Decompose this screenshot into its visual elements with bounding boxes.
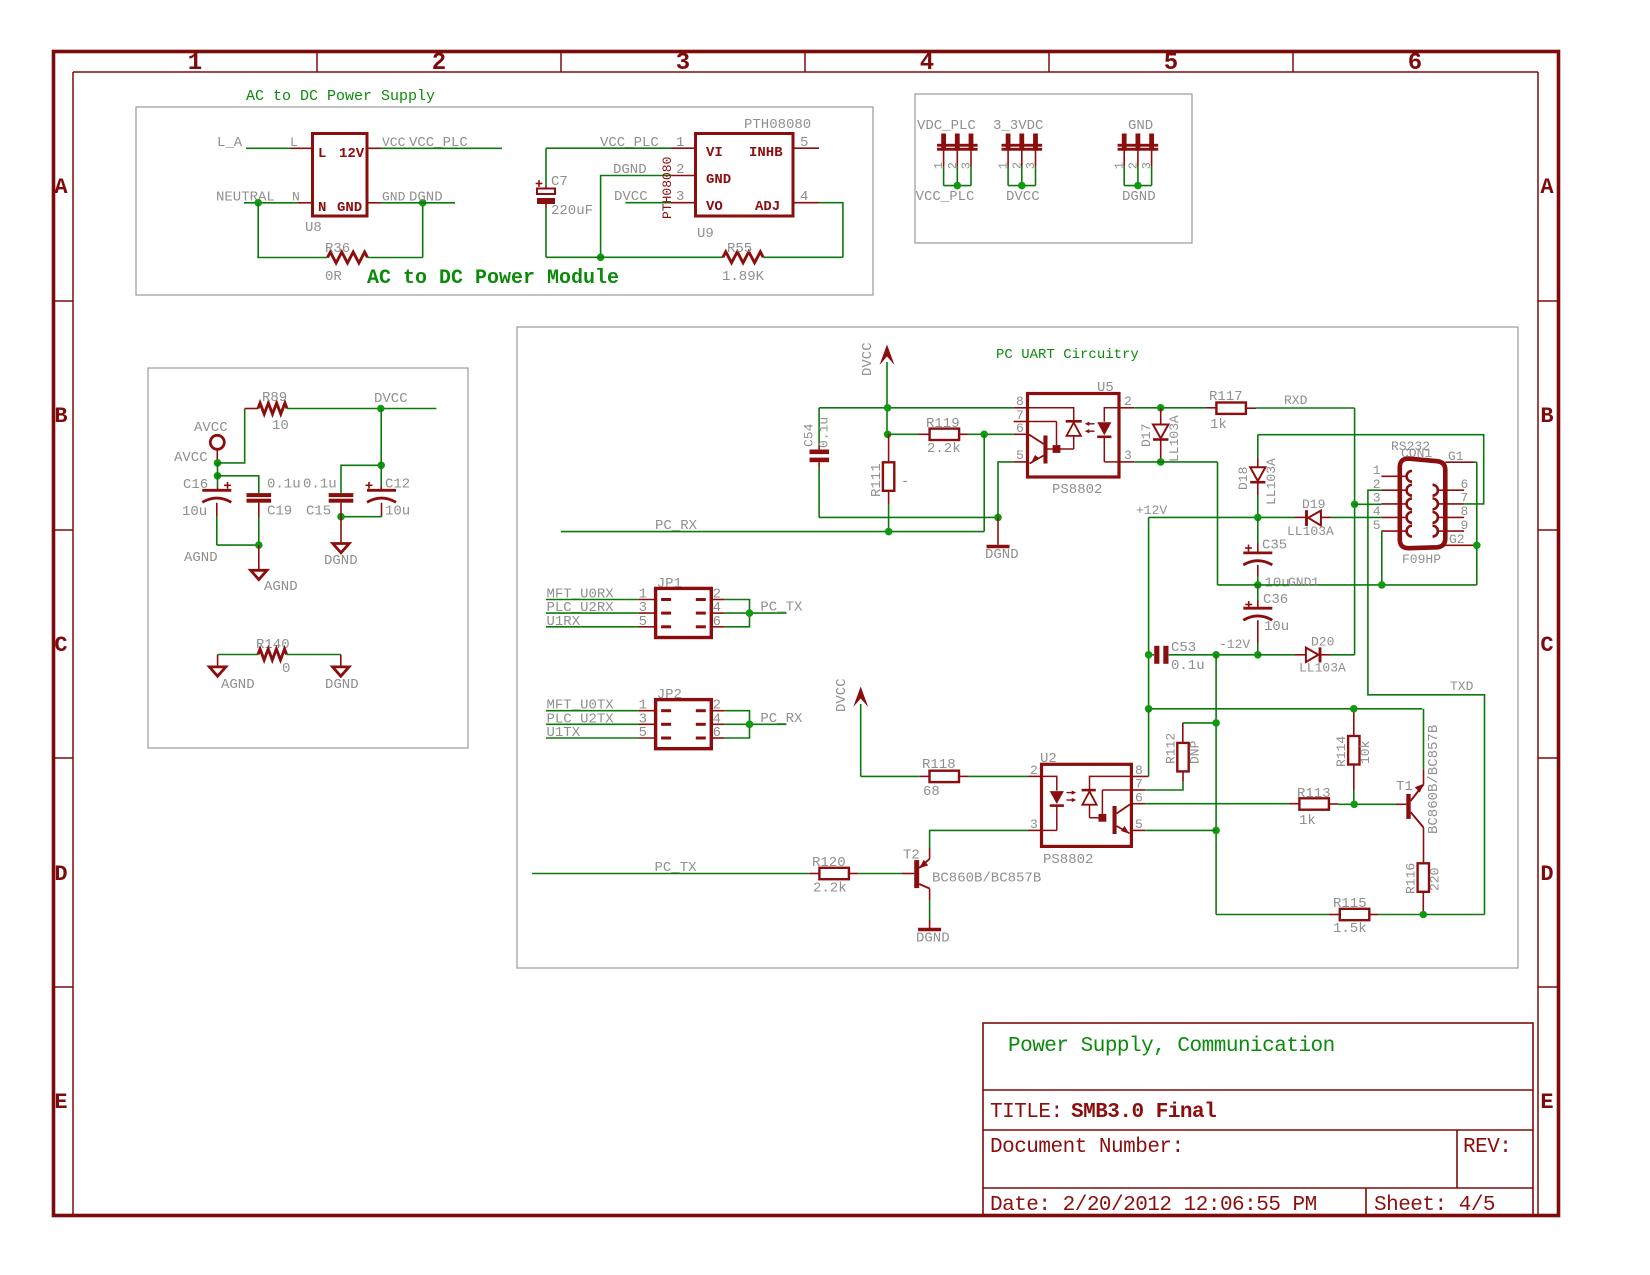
svg-text:LL103A: LL103A bbox=[1167, 415, 1182, 462]
svg-text:1k: 1k bbox=[1299, 813, 1316, 829]
label R120 bbox=[812, 855, 846, 871]
svg-text:Date: 2/20/2012 12:06:55 PM: Date: 2/20/2012 12:06:55 PM bbox=[990, 1194, 1317, 1217]
svg-text:D19: D19 bbox=[1302, 497, 1325, 512]
capacitor C7 bbox=[536, 180, 555, 204]
resistor R119 bbox=[930, 429, 960, 440]
wire -12V rail bbox=[1149, 654, 1258, 656]
row label A right bbox=[1540, 175, 1554, 200]
label U8 bbox=[305, 220, 322, 236]
value 10u C35 bbox=[1265, 576, 1290, 592]
label R111 vertical bbox=[869, 463, 885, 497]
pin lead U5.6 bbox=[1014, 433, 1028, 435]
resistor R111 bbox=[883, 434, 894, 531]
wire U5 pin2 to R117 bbox=[1134, 407, 1216, 409]
label C53 bbox=[1171, 640, 1196, 656]
svg-text:D20: D20 bbox=[1311, 635, 1334, 650]
svg-text:VCC: VCC bbox=[382, 135, 406, 150]
pin number U2.7 bbox=[1135, 777, 1143, 792]
svg-text:0.1u: 0.1u bbox=[1171, 658, 1205, 674]
value BC860B/BC857B T1 vertical bbox=[1426, 725, 1442, 834]
svg-text:A: A bbox=[1540, 175, 1554, 200]
svg-text:B: B bbox=[54, 404, 67, 429]
svg-text:D17: D17 bbox=[1139, 424, 1154, 447]
svg-text:R55: R55 bbox=[727, 241, 752, 257]
node -12V D20 junction bbox=[1254, 651, 1262, 659]
svg-text:2: 2 bbox=[1124, 394, 1132, 409]
svg-text:5: 5 bbox=[1135, 817, 1143, 832]
svg-text:5: 5 bbox=[1164, 50, 1178, 77]
svg-text:AVCC: AVCC bbox=[174, 450, 208, 466]
label T2 bbox=[903, 848, 920, 864]
svg-text:C54: C54 bbox=[802, 423, 817, 447]
svg-text:DVCC: DVCC bbox=[834, 678, 850, 712]
svg-text:R114: R114 bbox=[1334, 736, 1349, 767]
svg-text:AGND: AGND bbox=[221, 677, 255, 693]
net label NEUTRAL bbox=[216, 190, 275, 206]
label CON1 bbox=[1401, 446, 1432, 461]
svg-text:1: 1 bbox=[1373, 463, 1381, 478]
optocoupler U5 bbox=[1028, 394, 1120, 478]
wire R36 to DGND node bbox=[368, 203, 423, 258]
svg-text:1: 1 bbox=[932, 162, 946, 169]
capacitor C19 bbox=[247, 493, 272, 503]
wire T2 collector to U2 pin3 bbox=[930, 830, 1028, 858]
svg-text:6: 6 bbox=[1135, 790, 1143, 805]
value 0.1u C15 bbox=[303, 477, 337, 493]
pin number 2 bbox=[676, 162, 684, 178]
svg-text:DVCC: DVCC bbox=[860, 342, 876, 376]
svg-text:PC_TX: PC_TX bbox=[760, 600, 803, 616]
wire to DB9 pin3 bbox=[1355, 503, 1382, 505]
svg-text:E: E bbox=[54, 1090, 67, 1115]
svg-text:D: D bbox=[54, 862, 67, 887]
wire U5 pin5 to DGND bbox=[998, 462, 1014, 545]
wire R118 to U2 pin2 bbox=[959, 775, 1028, 777]
svg-text:L: L bbox=[290, 135, 298, 150]
svg-text:DGND: DGND bbox=[985, 547, 1019, 563]
svg-text:3_3VDC: 3_3VDC bbox=[993, 118, 1043, 134]
svg-text:10u: 10u bbox=[1264, 619, 1289, 635]
svg-text:PS8802: PS8802 bbox=[1052, 482, 1102, 498]
CON1 pin 8 lead bbox=[1433, 512, 1465, 523]
wire DVCC to C12 bbox=[380, 409, 382, 491]
net label PC_RX bbox=[655, 518, 698, 534]
wire U9 ADJ to R55 bbox=[793, 203, 843, 258]
pin name VCC bbox=[382, 135, 406, 150]
svg-text:10k: 10k bbox=[1358, 740, 1373, 764]
svg-text:C36: C36 bbox=[1263, 592, 1288, 608]
label C15 bbox=[306, 504, 331, 520]
pin number CON1.2 bbox=[1373, 477, 1381, 492]
resistor R89 bbox=[258, 403, 287, 414]
wire R55 to ADJ bbox=[763, 256, 843, 258]
svg-text:R118: R118 bbox=[922, 757, 956, 773]
svg-text:2: 2 bbox=[676, 162, 684, 178]
node C7 bottom junction bbox=[597, 253, 605, 261]
node AVCC junction 2 bbox=[214, 472, 222, 480]
svg-text:C7: C7 bbox=[551, 174, 568, 190]
svg-text:N: N bbox=[318, 200, 326, 216]
title block Document Number bbox=[990, 1136, 1184, 1159]
svg-text:R113: R113 bbox=[1297, 786, 1331, 802]
pin name L bbox=[290, 135, 298, 150]
node pin5 GND1 junction bbox=[1378, 581, 1386, 589]
svg-text:3: 3 bbox=[960, 162, 974, 169]
label PTH08080 top bbox=[744, 117, 811, 133]
jumper JP1 bbox=[546, 587, 803, 638]
svg-text:C: C bbox=[54, 633, 67, 658]
node pin6 junction bbox=[980, 431, 988, 439]
diode D19 bbox=[1307, 510, 1382, 526]
value 1.5k bbox=[1333, 921, 1367, 937]
AC to DC Power Supply section box bbox=[136, 107, 873, 295]
svg-text:R117: R117 bbox=[1209, 389, 1243, 405]
label R140 bbox=[256, 637, 290, 653]
label AGND bbox=[264, 579, 298, 595]
node T1 base junction bbox=[1350, 801, 1358, 809]
node R111 PC_RX junction bbox=[885, 528, 893, 536]
svg-text:A: A bbox=[54, 175, 68, 200]
value 10k vertical bbox=[1358, 740, 1373, 764]
svg-text:DVCC: DVCC bbox=[1006, 189, 1040, 205]
value LL103A D19 bbox=[1287, 524, 1334, 539]
node U2 pin5 junction bbox=[1212, 827, 1220, 835]
label DGND bbox=[324, 553, 358, 569]
capacitor C53 bbox=[1154, 646, 1168, 664]
pin G1 lead bbox=[1445, 461, 1473, 463]
svg-text:220uF: 220uF bbox=[551, 203, 593, 219]
capacitor C35 bbox=[1243, 517, 1272, 585]
row label C right bbox=[1540, 633, 1553, 658]
node R112 junction bbox=[1212, 719, 1220, 727]
value 220uF bbox=[551, 203, 593, 219]
svg-text:G1: G1 bbox=[1448, 449, 1464, 464]
label DGND T2 bbox=[916, 931, 950, 947]
svg-text:2: 2 bbox=[1010, 162, 1024, 169]
wire C54 bottom rail bbox=[819, 516, 998, 518]
svg-text:GND1: GND1 bbox=[1288, 575, 1319, 590]
title block frame bbox=[983, 1023, 1533, 1216]
svg-text:68: 68 bbox=[923, 784, 940, 800]
value 0.1u C53 bbox=[1171, 658, 1205, 674]
wire DGND to U9 pin 2 bbox=[601, 176, 696, 258]
wire C12 bottom bbox=[341, 503, 382, 517]
regulator U9 PTH08080 bbox=[696, 134, 794, 217]
row label A left bbox=[54, 175, 68, 200]
wire R117 to RXD bbox=[1246, 407, 1354, 409]
ground AGND 2 bbox=[209, 667, 225, 676]
value LL103A D18 vertical bbox=[1264, 458, 1279, 505]
resistor R117 bbox=[1216, 403, 1246, 414]
value LL103A D17 vertical bbox=[1167, 415, 1182, 462]
svg-text:Sheet: 4/5: Sheet: 4/5 bbox=[1374, 1194, 1495, 1217]
pin number U5.3 bbox=[1124, 448, 1132, 463]
pin number U2.5 bbox=[1135, 817, 1143, 832]
transistor T2 bbox=[914, 859, 929, 889]
svg-text:R112: R112 bbox=[1164, 733, 1179, 764]
pin number CON1.9 bbox=[1461, 518, 1469, 533]
connector CON1 DB9 shell bbox=[1400, 459, 1446, 549]
CON1 pin 5 lead bbox=[1381, 526, 1412, 537]
resistor R116 bbox=[1418, 863, 1429, 914]
pin number 5 bbox=[800, 135, 808, 151]
label C16 bbox=[183, 477, 208, 493]
value 0 bbox=[282, 661, 290, 677]
svg-text:2: 2 bbox=[946, 162, 960, 169]
wire PC_TX bbox=[532, 873, 819, 875]
svg-text:N: N bbox=[292, 190, 300, 205]
analog supply section box bbox=[148, 368, 468, 748]
svg-text:DGND: DGND bbox=[409, 190, 443, 206]
wire U2 pin6 to R113 bbox=[1145, 803, 1299, 805]
connector 3_3VDC header bbox=[993, 118, 1043, 205]
label DGND U5 bbox=[985, 547, 1019, 563]
svg-text:3: 3 bbox=[1140, 162, 1154, 169]
wire +12V down bbox=[1148, 517, 1150, 708]
capacitor C54 bbox=[810, 408, 830, 518]
CON1 pin 2 lead bbox=[1381, 485, 1412, 496]
wire -12V down bbox=[1215, 655, 1217, 915]
pin name GND bbox=[382, 190, 406, 205]
PC UART Circuitry title bbox=[996, 347, 1139, 363]
value 0.1u C54 vertical bbox=[817, 417, 832, 448]
svg-text:AGND: AGND bbox=[184, 550, 218, 566]
svg-text:RXD: RXD bbox=[1284, 393, 1308, 408]
resistor R112 bbox=[1145, 723, 1216, 790]
svg-text:2: 2 bbox=[432, 50, 446, 77]
resistor R114 bbox=[1348, 709, 1359, 805]
svg-text:PC_RX: PC_RX bbox=[760, 711, 803, 727]
svg-text:3: 3 bbox=[676, 189, 684, 205]
label R115 bbox=[1333, 896, 1367, 912]
svg-text:3: 3 bbox=[1124, 448, 1132, 463]
wire NEUTRAL to U8 pin N bbox=[244, 202, 313, 204]
wire AVCC to C16 bbox=[217, 476, 219, 491]
label F09HP bbox=[1402, 552, 1441, 567]
wire bottom rail to R55 bbox=[546, 256, 723, 258]
svg-text:1k: 1k bbox=[1210, 417, 1227, 433]
svg-text:12V: 12V bbox=[339, 146, 365, 162]
svg-text:DGND: DGND bbox=[324, 553, 358, 569]
wire R119 to U5 pin6 bbox=[959, 433, 1014, 435]
capacitor C15 bbox=[329, 493, 354, 503]
diode D20 bbox=[1258, 647, 1355, 662]
resistor R120 bbox=[819, 868, 849, 879]
svg-text:1: 1 bbox=[997, 162, 1011, 169]
column label 3 bbox=[676, 50, 690, 77]
label RS232 bbox=[1391, 439, 1430, 454]
value R111 dash bbox=[901, 474, 909, 490]
label R55 bbox=[727, 241, 752, 257]
pin lead U2.2 bbox=[1028, 775, 1042, 777]
svg-text:C15: C15 bbox=[306, 504, 331, 520]
svg-text:5: 5 bbox=[800, 135, 808, 151]
svg-text:-12V: -12V bbox=[1219, 637, 1250, 652]
pin number U2.2 bbox=[1030, 763, 1038, 778]
pin lead U5.8 bbox=[1014, 407, 1028, 409]
net label RXD bbox=[1284, 393, 1308, 408]
pin lead U5.2 bbox=[1119, 407, 1134, 409]
node C53 junction bbox=[1145, 651, 1153, 659]
svg-text:PC UART Circuitry: PC UART Circuitry bbox=[996, 347, 1139, 363]
title block Date bbox=[990, 1194, 1317, 1217]
node C15 bottom junction bbox=[337, 513, 345, 521]
wire R120 to T2 bbox=[849, 873, 914, 875]
ground DGND U5 bbox=[987, 545, 1010, 548]
svg-text:BC860B/BC857B: BC860B/BC857B bbox=[932, 871, 1041, 887]
svg-text:REV:: REV: bbox=[1463, 1136, 1511, 1159]
title block SMB3.0 Final bbox=[1071, 1101, 1216, 1124]
wire T1 collector up bbox=[1423, 709, 1425, 785]
svg-text:PS8802: PS8802 bbox=[1043, 852, 1093, 868]
wire R119 row bbox=[888, 433, 930, 435]
net label PC_TX bbox=[655, 860, 698, 876]
svg-text:0.1u: 0.1u bbox=[303, 477, 337, 493]
value 68 bbox=[923, 784, 940, 800]
diode D17 bbox=[1153, 408, 1168, 462]
wire to DGND symbol bbox=[340, 517, 342, 544]
value DNP vertical bbox=[1188, 740, 1203, 764]
row label B left bbox=[54, 404, 67, 429]
wire PC_RX bbox=[561, 531, 984, 533]
svg-text:LL103A: LL103A bbox=[1287, 524, 1334, 539]
pin lead U2.3 bbox=[1028, 829, 1042, 831]
wire C16 bottom bbox=[217, 503, 259, 545]
svg-text:AC to DC Power Module: AC to DC Power Module bbox=[367, 267, 619, 290]
pin number U5.2 bbox=[1124, 394, 1132, 409]
value 10u C12 bbox=[385, 504, 410, 520]
svg-text:R116: R116 bbox=[1404, 863, 1419, 894]
svg-text:AC to DC Power Supply: AC to DC Power Supply bbox=[246, 88, 435, 105]
wire GND1 link down bbox=[1217, 462, 1219, 585]
pin number U2.6 bbox=[1135, 790, 1143, 805]
wire AVCC down bbox=[217, 463, 219, 476]
label R112 vertical bbox=[1164, 733, 1179, 764]
svg-text:Document Number:: Document Number: bbox=[990, 1136, 1184, 1159]
svg-text:VCC_PLC: VCC_PLC bbox=[916, 189, 975, 205]
svg-text:1: 1 bbox=[676, 135, 684, 151]
svg-text:C35: C35 bbox=[1262, 538, 1287, 554]
node D17 top junction bbox=[1157, 404, 1165, 412]
transistor T1 bbox=[1406, 784, 1424, 828]
svg-text:LL103A: LL103A bbox=[1264, 458, 1279, 505]
wire DVCC to U9 pin 3 bbox=[626, 202, 696, 204]
svg-text:4: 4 bbox=[920, 50, 934, 77]
value 1k bbox=[1210, 417, 1227, 433]
label R118 bbox=[922, 757, 956, 773]
svg-text:5: 5 bbox=[1373, 518, 1381, 533]
net label GND1 bbox=[1288, 575, 1319, 590]
svg-text:VCC_PLC: VCC_PLC bbox=[409, 135, 468, 151]
svg-text:GND: GND bbox=[382, 190, 406, 205]
wire RXD down bbox=[1354, 408, 1356, 655]
resistor R113 bbox=[1299, 798, 1329, 809]
wire NEUTRAL down to R36 bbox=[258, 203, 327, 258]
node R116 junction bbox=[1420, 911, 1428, 919]
wire +12V rail bbox=[1149, 516, 1307, 518]
node NEUTRAL junction bbox=[254, 199, 262, 207]
svg-text:ADJ: ADJ bbox=[755, 199, 780, 215]
svg-text:TITLE:: TITLE: bbox=[990, 1101, 1063, 1124]
label G2 bbox=[1449, 532, 1465, 547]
row label E right bbox=[1540, 1090, 1553, 1115]
wire AVCC to R89 bbox=[218, 409, 259, 463]
svg-text:GND: GND bbox=[337, 200, 362, 216]
row label C left bbox=[54, 633, 67, 658]
svg-text:0R: 0R bbox=[325, 269, 342, 285]
wire VCC_PLC to U9 pin 1 bbox=[546, 147, 696, 149]
svg-text:2: 2 bbox=[1030, 763, 1038, 778]
label G1 bbox=[1448, 449, 1464, 464]
pin number CON1.7 bbox=[1461, 491, 1469, 506]
jumper JP2 bbox=[546, 698, 803, 749]
svg-text:GND: GND bbox=[1128, 118, 1153, 134]
svg-text:2: 2 bbox=[1126, 162, 1140, 169]
svg-text:Power Supply, Communication: Power Supply, Communication bbox=[1008, 1035, 1335, 1058]
diode D18 bbox=[1250, 435, 1265, 518]
pin number CON1.4 bbox=[1373, 504, 1381, 519]
net label VCC_PLC at U9 bbox=[600, 135, 659, 151]
net label AVCC bbox=[174, 450, 208, 466]
svg-text:T2: T2 bbox=[903, 848, 920, 864]
svg-text:R111: R111 bbox=[869, 463, 885, 497]
svg-text:R120: R120 bbox=[812, 855, 846, 871]
pin number U5.5 bbox=[1016, 448, 1024, 463]
net label DVCC bbox=[374, 391, 408, 407]
AC to DC Power Supply title bbox=[246, 88, 435, 105]
pin lead U2.8 bbox=[1131, 775, 1148, 777]
label R117 bbox=[1209, 389, 1243, 405]
wire pin6 down to PC_RX bbox=[983, 434, 985, 531]
CON1 pin 4 lead bbox=[1381, 512, 1412, 523]
svg-text:+12V: +12V bbox=[1136, 503, 1167, 518]
value 0R bbox=[325, 269, 342, 285]
pin lead U5.5 bbox=[1014, 461, 1028, 463]
value BC860B/BC857B T2 bbox=[932, 871, 1041, 887]
svg-text:3: 3 bbox=[676, 50, 690, 77]
wire pin8 rail bbox=[819, 407, 1014, 409]
AC to DC Power Module title bbox=[367, 267, 619, 290]
svg-text:DGND: DGND bbox=[1122, 189, 1156, 205]
svg-text:B: B bbox=[1540, 404, 1553, 429]
ground AGND bbox=[251, 570, 267, 579]
pin number CON1.6 bbox=[1461, 477, 1469, 492]
resistor R36 bbox=[328, 252, 368, 263]
svg-text:R36: R36 bbox=[325, 241, 350, 257]
pin number U2.8 bbox=[1135, 763, 1143, 778]
pin lead U5.7 bbox=[1014, 421, 1028, 423]
wire DB9 pin5 down bbox=[1380, 531, 1382, 585]
row label B right bbox=[1540, 404, 1553, 429]
svg-text:L: L bbox=[318, 146, 326, 162]
svg-text:1.89K: 1.89K bbox=[722, 269, 765, 285]
node +12V junction bbox=[1254, 514, 1262, 522]
node R114 top junction bbox=[1350, 705, 1358, 713]
label U5 bbox=[1097, 380, 1114, 396]
svg-text:U5: U5 bbox=[1097, 380, 1114, 396]
net label TXD bbox=[1450, 679, 1474, 694]
pin lead U2.6 bbox=[1131, 803, 1145, 805]
svg-text:10: 10 bbox=[272, 418, 289, 434]
svg-text:DGND: DGND bbox=[325, 677, 359, 693]
svg-text:JP1: JP1 bbox=[657, 576, 682, 592]
CON1 pin 1 lead bbox=[1381, 471, 1412, 482]
wire D18 rail bbox=[1258, 435, 1484, 504]
svg-text:DGND: DGND bbox=[916, 931, 950, 947]
wire R115 to TXD bbox=[1369, 914, 1484, 916]
wire junction to C19 bbox=[218, 476, 259, 493]
PC UART section box bbox=[517, 327, 1518, 968]
